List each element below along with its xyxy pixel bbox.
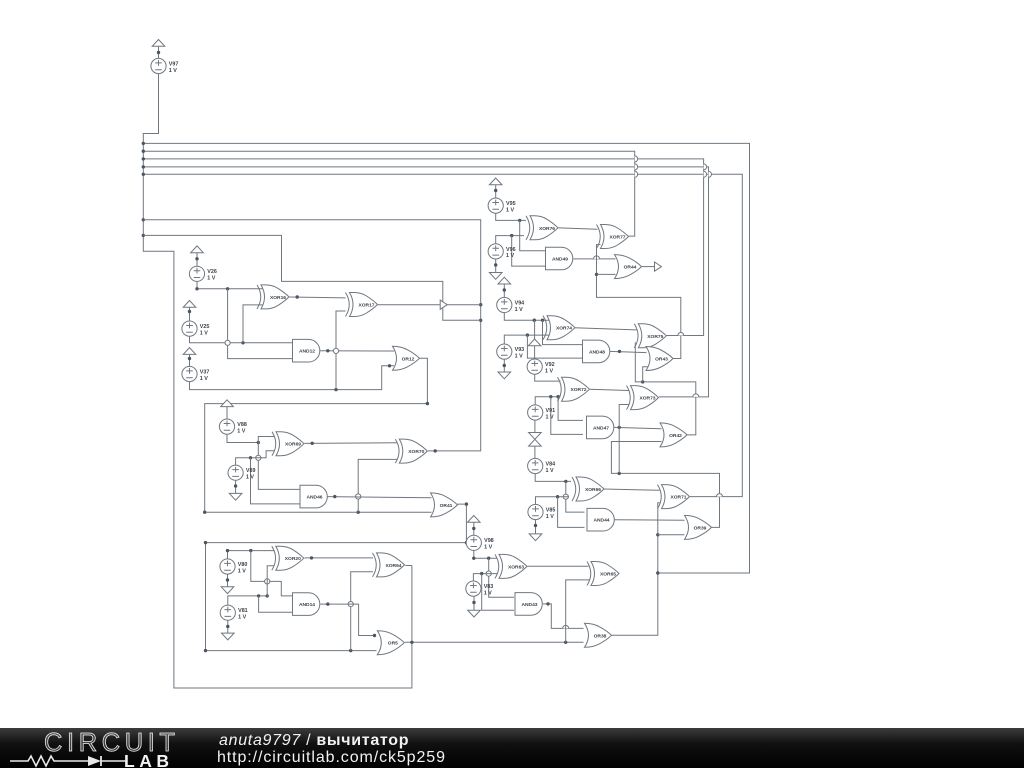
wire XOR64.B from borrow rail <box>351 572 373 651</box>
CircuitLab logo <box>44 729 180 758</box>
XOR gate XOR63 <box>495 554 527 578</box>
wire V93 to XOR74.B and AND48.B <box>504 335 549 344</box>
AND gate AND46 <box>300 485 327 508</box>
wire XOR72 out to XOR73.A <box>590 389 629 390</box>
XOR gate XOR72 <box>558 377 590 401</box>
voltage source V37 <box>182 366 197 381</box>
output flag on XOR17 output <box>440 300 447 309</box>
wire XOR16 out to XOR17.A <box>290 296 346 299</box>
svg-text:1 V: 1 V <box>169 68 177 74</box>
carry from OR39 to XOR73.B and OR42.B <box>611 442 719 528</box>
wire XOR66 out to XOR71.A <box>603 489 659 490</box>
wire XOR69 out to XOR70.A <box>305 442 398 445</box>
svg-text:XOR65: XOR65 <box>600 572 616 578</box>
OR gate OR43 <box>646 347 673 371</box>
wire AND49 out to OR44.A <box>573 258 615 260</box>
svg-text:1 V: 1 V <box>207 276 215 282</box>
svg-text:1 V: 1 V <box>515 307 523 313</box>
svg-text:1 V: 1 V <box>484 590 492 596</box>
svg-text:XOR16: XOR16 <box>270 295 286 301</box>
svg-text:V96: V96 <box>506 247 516 253</box>
svg-text:XOR17: XOR17 <box>358 303 374 309</box>
svg-text:1 V: 1 V <box>484 545 492 551</box>
XOR gate XOR69 <box>272 432 304 456</box>
wire V92 to XOR72.A <box>535 374 561 381</box>
wire AND12 out to OR12.A <box>320 350 394 352</box>
net flag above V98 <box>468 516 481 523</box>
voltage source V95 <box>488 198 503 213</box>
voltage source V26 <box>189 266 204 281</box>
wire V95 to XOR76.A and AND49.A <box>496 213 526 221</box>
wire V94 to XOR74.A and AND48.A <box>504 312 549 320</box>
logo resistor-diode art <box>10 756 126 766</box>
net flag above V95 <box>489 178 502 185</box>
svg-text:V98: V98 <box>484 538 494 544</box>
svg-text:V83: V83 <box>484 584 494 590</box>
net line y=235 routed to x=480 trunk <box>143 235 480 320</box>
AND gate AND47 <box>587 416 614 439</box>
voltage source V25 <box>182 321 197 336</box>
svg-text:AND47: AND47 <box>593 425 609 431</box>
net flag above V37 <box>183 348 196 355</box>
svg-text:OR38: OR38 <box>594 633 607 639</box>
net flag above V97 <box>152 40 165 47</box>
svg-text:XOR76: XOR76 <box>539 226 555 232</box>
AND gate AND43 <box>515 593 542 616</box>
voltage source V81 <box>220 605 235 620</box>
XOR gate XOR71 <box>658 485 690 509</box>
OR gate OR39 <box>685 515 712 539</box>
wire OR44 out to output flag <box>642 266 654 268</box>
svg-text:1 V: 1 V <box>506 207 514 213</box>
OR gate OR5 <box>377 631 404 655</box>
bus line 3 (to XOR75 output) <box>143 159 703 336</box>
net flag below V96 <box>489 273 502 280</box>
net flag below V81 <box>222 633 235 640</box>
svg-text:AND12: AND12 <box>299 349 315 355</box>
svg-text:1 V: 1 V <box>238 568 246 574</box>
svg-text:1 V: 1 V <box>237 428 245 434</box>
voltage source V91 <box>528 405 543 420</box>
AND gate AND48 <box>583 340 610 363</box>
svg-text:XOR77: XOR77 <box>609 235 625 241</box>
svg-text:V37: V37 <box>200 369 210 375</box>
svg-text:AND44: AND44 <box>593 518 609 524</box>
wire V96 to XOR76.B and AND49.B <box>496 236 524 245</box>
XOR gate XOR75 <box>634 324 666 348</box>
svg-text:1 V: 1 V <box>546 468 554 474</box>
AND gate AND49 <box>546 247 573 270</box>
svg-text:V85: V85 <box>546 507 556 513</box>
svg-text:V25: V25 <box>200 324 210 330</box>
voltage source V85 <box>528 504 543 519</box>
OR gate OR42 <box>660 423 687 447</box>
net line y=220 to XOR70 output trunk <box>143 220 480 451</box>
wire V84 to XOR66.A and AND44.A <box>535 473 571 481</box>
wire V91 to XOR72.B, AND47.A, AND47.B <box>535 397 560 406</box>
wire AND46 out to OR41.A <box>328 497 432 498</box>
voltage source V83 <box>466 581 481 596</box>
svg-text:XOR71: XOR71 <box>670 495 686 501</box>
svg-text:XOR70: XOR70 <box>408 449 424 455</box>
svg-text:V97: V97 <box>169 61 179 67</box>
footer url <box>217 749 446 767</box>
wire V98 to XOR63.A and AND43.A <box>474 550 498 558</box>
svg-text:AND43: AND43 <box>521 602 537 608</box>
wire V89 to XOR69.B and AND46.B <box>236 451 275 466</box>
voltage source V93 <box>497 344 512 359</box>
hops on vertical trunks crossing bus lines <box>635 156 638 162</box>
svg-text:1 V: 1 V <box>238 615 246 621</box>
voltage source V92 <box>527 359 542 374</box>
svg-text:V26: V26 <box>207 269 217 275</box>
svg-text:XOR20: XOR20 <box>285 556 301 562</box>
carry from OR43 to XOR77.B and OR44.B <box>597 245 681 359</box>
wire V85 to XOR66.B and AND44.B <box>536 497 570 505</box>
net flag below V85 <box>529 534 542 541</box>
svg-text:1 V: 1 V <box>200 376 208 382</box>
bus line 1 (to XOR65 output) <box>143 143 749 573</box>
AND gate AND12 <box>293 339 320 362</box>
wire V80 to XOR20.A and AND14.A <box>228 551 275 559</box>
wire XOR17 out to x=480 trunk with output flag <box>377 304 480 306</box>
wire V25 to XOR16.B and AND12.A <box>190 336 293 343</box>
svg-text:V88: V88 <box>237 422 247 428</box>
svg-text:1 V: 1 V <box>506 253 514 259</box>
svg-text:OR43: OR43 <box>655 357 668 363</box>
svg-text:AND46: AND46 <box>306 495 322 501</box>
bus line 2 (to XOR77 output) <box>143 151 634 236</box>
svg-text:V81: V81 <box>238 608 248 614</box>
svg-text:V95: V95 <box>506 201 516 207</box>
footer username and title <box>219 732 409 750</box>
wire OR5 out to OR38.B <box>405 641 584 643</box>
svg-text:1 V: 1 V <box>246 475 254 481</box>
wire AND43 out to OR38.A <box>543 604 584 629</box>
wire OR41 out down to V98 node <box>458 504 467 542</box>
svg-text:AND49: AND49 <box>552 257 568 263</box>
XOR gate XOR76 <box>526 216 558 240</box>
net flag above V84 <box>529 439 542 446</box>
voltage source V96 <box>488 244 503 259</box>
OR gate OR12 <box>393 346 420 370</box>
svg-text:OR41: OR41 <box>440 503 453 509</box>
svg-text:V80: V80 <box>238 562 248 568</box>
svg-text:1 V: 1 V <box>546 414 554 420</box>
svg-text:V91: V91 <box>546 408 556 414</box>
carry from OR42 to XOR75.B and OR43.B <box>635 342 696 435</box>
svg-text:OR42: OR42 <box>669 433 682 439</box>
bus line 4 (to XOR73 output) <box>143 167 708 397</box>
svg-text:1 V: 1 V <box>546 514 554 520</box>
net flag above V88 touching OR12 net <box>221 400 234 407</box>
XOR gate XOR64 <box>373 553 405 577</box>
net flag above V26 <box>191 246 204 253</box>
svg-text:XOR73: XOR73 <box>639 396 655 402</box>
OR gate OR38 <box>585 623 612 647</box>
wire XOR20 out to XOR64.A <box>305 557 374 559</box>
XOR gate XOR77 <box>597 225 629 249</box>
svg-text:OR39: OR39 <box>694 525 707 531</box>
svg-text:1 V: 1 V <box>545 368 553 374</box>
voltage source V80 <box>220 559 235 574</box>
borrow from OR38 up to XOR71.B and OR39.B <box>612 503 660 636</box>
svg-text:OR5: OR5 <box>388 641 398 647</box>
wire OR12 out to borrow net (XOR70.B, OR41.B) <box>205 358 432 512</box>
svg-text:XOR75: XOR75 <box>647 334 663 340</box>
XOR gate XOR65 <box>587 562 619 586</box>
wire V37 to OR12.B and XOR17.B <box>190 366 395 390</box>
wire XOR64 out down to bottom return line <box>405 565 412 567</box>
bus junction dots <box>142 142 145 145</box>
XOR gate XOR66 <box>572 477 604 501</box>
XOR gate XOR17 <box>346 293 378 317</box>
voltage source V88 <box>219 419 234 434</box>
net flag above V92 linked to V94 net <box>528 339 541 346</box>
svg-text:XOR72: XOR72 <box>570 387 586 393</box>
svg-text:V84: V84 <box>546 461 556 467</box>
wire V81 to XOR20.B and AND14.B <box>228 596 267 605</box>
net flag below V83 <box>468 610 481 617</box>
net flag below V93 <box>498 372 511 379</box>
net flag above V25 <box>183 301 196 308</box>
voltage source V98 <box>466 535 481 550</box>
voltage source V89 <box>228 465 243 480</box>
svg-text:AND48: AND48 <box>589 349 605 355</box>
wire XOR65.B from OR5 net <box>566 580 590 642</box>
svg-text:XOR66: XOR66 <box>585 487 601 493</box>
XOR gate XOR73 <box>627 386 659 410</box>
voltage source V94 <box>497 297 512 312</box>
wire XOR63 out to XOR65.A <box>527 565 588 567</box>
wire AND44 out to OR39.A <box>614 519 684 522</box>
wire V88 to XOR69.A and AND46.A <box>227 434 258 443</box>
bus line 5 (to XOR71 output) <box>143 174 742 496</box>
wire AND48 out to OR43.A <box>609 351 646 352</box>
XOR gate XOR16 <box>257 285 289 309</box>
wire V26 to XOR16.A and AND12.B <box>197 281 263 289</box>
XOR gate XOR20 <box>272 546 304 570</box>
svg-text:V89: V89 <box>246 468 256 474</box>
net flag below V80 <box>221 587 234 594</box>
svg-text:V94: V94 <box>515 300 525 306</box>
svg-text:1 V: 1 V <box>515 353 523 359</box>
wire V97 lead down to bus trunk <box>143 73 412 688</box>
svg-text:XOR74: XOR74 <box>556 326 572 332</box>
wire XOR74 out to XOR75.A <box>574 328 637 330</box>
XOR gate XOR70 <box>395 439 427 463</box>
net flag above V94 <box>498 277 511 284</box>
output flag after OR44 <box>655 262 662 271</box>
AND gate AND14 <box>293 593 320 616</box>
svg-text:V92: V92 <box>545 362 555 368</box>
wire AND14 out to OR5.A <box>320 604 374 635</box>
svg-text:OR44: OR44 <box>624 265 637 271</box>
voltage source V97 <box>151 58 166 73</box>
wire V83 to XOR63.B and AND43.B <box>473 574 497 582</box>
OR gate OR41 <box>431 493 458 517</box>
XOR gate XOR74 <box>543 316 575 340</box>
wire XOR76 out to XOR77.A <box>556 228 598 230</box>
OR gate OR44 <box>615 255 642 279</box>
svg-text:XOR64: XOR64 <box>385 563 401 569</box>
AND gate AND44 <box>587 508 614 531</box>
svg-text:XOR69: XOR69 <box>285 442 301 448</box>
net flag below V91 <box>529 433 542 440</box>
voltage source V84 <box>528 458 543 473</box>
net flag below V89 <box>229 493 242 500</box>
wire left borrow rail to V98 <box>206 542 467 544</box>
svg-text:OR12: OR12 <box>402 356 415 362</box>
svg-text:V93: V93 <box>515 347 525 353</box>
svg-text:1 V: 1 V <box>200 330 208 336</box>
svg-text:AND14: AND14 <box>299 602 315 608</box>
svg-text:XOR63: XOR63 <box>508 564 524 570</box>
wire AND47 out to OR42.A <box>613 427 661 428</box>
